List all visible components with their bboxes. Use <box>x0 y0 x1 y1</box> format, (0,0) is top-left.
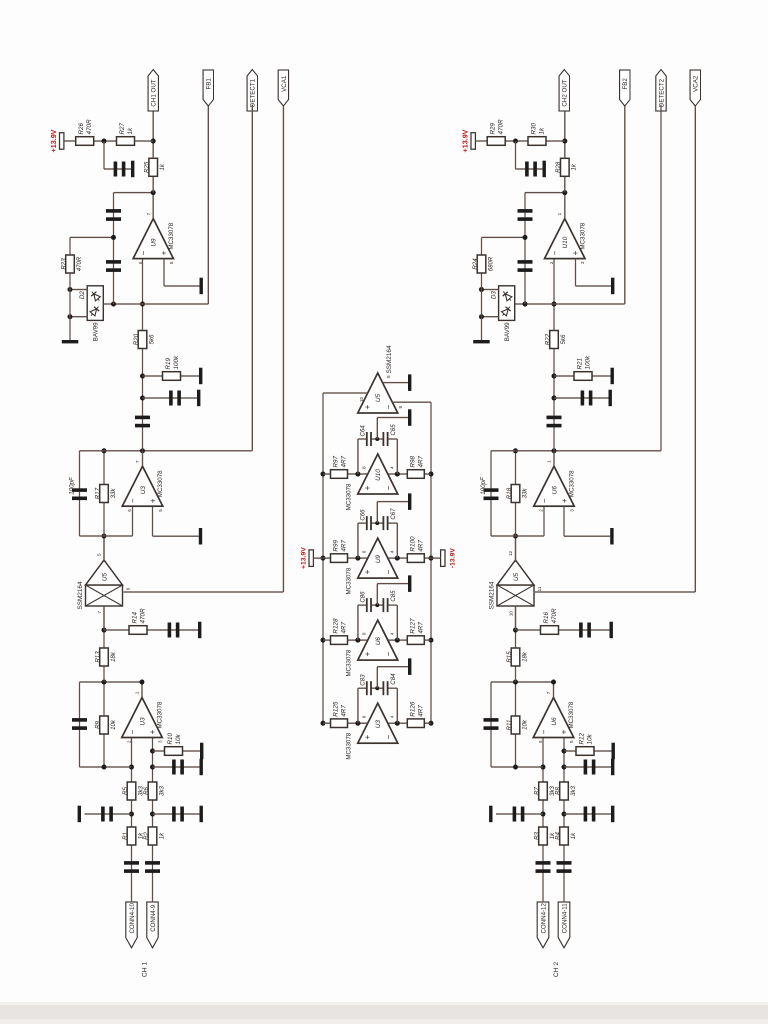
svg-text:3: 3 <box>580 261 585 264</box>
svg-text:U5: U5 <box>375 393 382 402</box>
svg-text:R125: R125 <box>333 701 340 717</box>
svg-text:R18: R18 <box>506 487 513 499</box>
svg-text:−: − <box>539 729 548 734</box>
svg-text:R3: R3 <box>533 831 540 839</box>
svg-text:1k: 1k <box>159 163 166 170</box>
svg-text:−: − <box>139 250 148 255</box>
svg-text:1k: 1k <box>570 832 577 839</box>
svg-text:C84: C84 <box>390 673 397 685</box>
svg-text:C67: C67 <box>390 508 397 520</box>
svg-text:4R7: 4R7 <box>417 540 424 552</box>
svg-text:U9: U9 <box>151 238 158 247</box>
svg-text:CONN4-9: CONN4-9 <box>150 904 157 932</box>
svg-text:MC33078: MC33078 <box>568 701 575 728</box>
svg-text:U5: U5 <box>101 572 108 581</box>
svg-text:470R: 470R <box>551 608 558 624</box>
svg-text:R127: R127 <box>409 618 416 634</box>
svg-text:+: + <box>363 735 372 740</box>
svg-text:+: + <box>560 729 569 734</box>
svg-text:R16: R16 <box>543 611 550 623</box>
svg-text:CH 1: CH 1 <box>142 962 149 978</box>
svg-text:R21: R21 <box>577 358 584 370</box>
svg-text:33k: 33k <box>110 488 117 499</box>
svg-text:BAV99: BAV99 <box>504 322 511 341</box>
svg-text:MC33078: MC33078 <box>346 732 353 759</box>
svg-text:R6: R6 <box>143 786 150 794</box>
svg-text:5k6: 5k6 <box>560 334 567 344</box>
svg-text:C65: C65 <box>390 424 397 436</box>
svg-text:MC33078: MC33078 <box>168 222 175 249</box>
svg-text:−: − <box>384 651 393 656</box>
svg-text:R10: R10 <box>167 732 174 744</box>
svg-text:CONN4-11: CONN4-11 <box>561 903 568 933</box>
svg-text:R12: R12 <box>579 732 586 744</box>
svg-text:+: + <box>571 250 580 255</box>
svg-text:SSM2164: SSM2164 <box>489 581 496 610</box>
svg-text:MC33078: MC33078 <box>346 567 353 594</box>
svg-text:R126: R126 <box>409 701 416 717</box>
svg-text:470R: 470R <box>86 119 93 135</box>
svg-text:10k: 10k <box>175 733 182 744</box>
svg-text:U10: U10 <box>562 236 569 248</box>
svg-text:4R7: 4R7 <box>341 455 348 467</box>
svg-text:+: + <box>148 729 157 734</box>
svg-text:CONN4-10: CONN4-10 <box>129 903 136 934</box>
svg-text:U3: U3 <box>375 720 382 729</box>
svg-text:4R7: 4R7 <box>341 705 348 717</box>
svg-text:R100: R100 <box>409 536 416 552</box>
svg-text:100pF: 100pF <box>69 476 76 495</box>
svg-text:CH2 OUT: CH2 OUT <box>562 79 569 106</box>
svg-text:3k3: 3k3 <box>570 785 577 795</box>
svg-text:R25: R25 <box>144 161 151 173</box>
svg-text:FB1: FB1 <box>206 78 213 90</box>
svg-text:CH1 OUT: CH1 OUT <box>151 79 158 106</box>
svg-text:-13.9V: -13.9V <box>449 548 456 568</box>
svg-text:1k: 1k <box>571 163 578 170</box>
svg-text:MC33078: MC33078 <box>580 222 587 249</box>
svg-text:4R7: 4R7 <box>341 622 348 634</box>
svg-text:100k: 100k <box>173 355 180 370</box>
svg-text:−: − <box>128 498 137 503</box>
svg-text:U3: U3 <box>140 486 147 495</box>
svg-text:R9: R9 <box>94 720 101 728</box>
svg-text:R5: R5 <box>122 786 129 794</box>
svg-text:4: 4 <box>390 466 395 469</box>
svg-text:9: 9 <box>398 406 403 409</box>
svg-text:R8: R8 <box>554 786 561 794</box>
svg-text:FB2: FB2 <box>622 78 629 90</box>
svg-text:R4: R4 <box>554 831 561 839</box>
svg-text:+: + <box>159 250 168 255</box>
svg-text:100pF: 100pF <box>480 476 487 495</box>
svg-text:−: − <box>540 498 549 503</box>
svg-text:12: 12 <box>508 550 513 556</box>
svg-text:R28: R28 <box>555 161 562 173</box>
svg-text:U3: U3 <box>139 717 146 726</box>
svg-text:6: 6 <box>127 509 132 512</box>
svg-text:10: 10 <box>509 611 514 617</box>
svg-text:+: + <box>363 404 372 409</box>
svg-text:CONN4-12: CONN4-12 <box>540 903 547 934</box>
svg-text:R14: R14 <box>132 611 139 623</box>
svg-text:8: 8 <box>362 466 367 469</box>
svg-text:R26: R26 <box>78 122 85 134</box>
svg-text:1k: 1k <box>539 127 546 135</box>
svg-text:10k: 10k <box>110 719 117 730</box>
svg-text:R7: R7 <box>533 786 540 794</box>
svg-text:7: 7 <box>97 611 102 614</box>
svg-text:+: + <box>363 569 372 574</box>
svg-text:4: 4 <box>390 715 395 718</box>
svg-text:MC33078: MC33078 <box>346 649 353 676</box>
svg-text:16: 16 <box>359 397 364 403</box>
svg-text:8: 8 <box>362 715 367 718</box>
svg-text:470R: 470R <box>140 608 147 624</box>
svg-text:8: 8 <box>362 550 367 553</box>
svg-text:MC33078: MC33078 <box>157 701 164 728</box>
svg-text:DETECT2: DETECT2 <box>658 78 665 107</box>
svg-text:2: 2 <box>549 261 554 264</box>
svg-text:−: − <box>551 250 560 255</box>
svg-text:R24: R24 <box>472 258 479 270</box>
svg-text:SSM2164: SSM2164 <box>77 581 84 610</box>
svg-text:6: 6 <box>125 587 130 590</box>
svg-text:+13.9V: +13.9V <box>49 129 58 152</box>
svg-text:5: 5 <box>97 553 102 556</box>
svg-text:33k: 33k <box>521 488 528 499</box>
svg-text:R20: R20 <box>133 333 140 345</box>
svg-text:U6: U6 <box>551 486 558 495</box>
svg-text:R27: R27 <box>119 122 126 134</box>
svg-text:−: − <box>384 569 393 574</box>
svg-text:R97: R97 <box>333 455 340 467</box>
svg-text:+: + <box>363 651 372 656</box>
svg-text:R99: R99 <box>333 540 340 552</box>
svg-text:4R7: 4R7 <box>417 705 424 717</box>
svg-text:C86: C86 <box>359 591 366 603</box>
svg-text:+: + <box>149 498 158 503</box>
svg-text:1: 1 <box>547 460 552 463</box>
svg-text:8: 8 <box>362 632 367 635</box>
svg-text:R23: R23 <box>60 258 67 270</box>
svg-text:R22: R22 <box>544 333 551 345</box>
svg-text:1k: 1k <box>127 127 134 135</box>
svg-text:4R7: 4R7 <box>417 622 424 634</box>
svg-text:R19: R19 <box>165 357 172 369</box>
svg-text:−: − <box>384 485 393 490</box>
svg-text:4: 4 <box>390 632 395 635</box>
svg-text:D2: D2 <box>79 291 86 300</box>
svg-text:R13: R13 <box>94 651 101 663</box>
svg-text:R2: R2 <box>143 831 150 839</box>
svg-text:4R7: 4R7 <box>341 540 348 552</box>
svg-text:3: 3 <box>570 509 575 512</box>
svg-text:R15: R15 <box>506 651 513 663</box>
svg-text:D3: D3 <box>491 291 498 300</box>
svg-text:CH 2: CH 2 <box>553 962 560 978</box>
svg-text:5: 5 <box>169 261 174 264</box>
svg-text:470R: 470R <box>76 256 83 271</box>
svg-text:6: 6 <box>538 740 543 743</box>
svg-text:DETECT1: DETECT1 <box>250 78 257 107</box>
svg-text:680R: 680R <box>487 256 494 271</box>
svg-text:11: 11 <box>537 586 542 591</box>
svg-text:4R7: 4R7 <box>417 455 424 467</box>
svg-text:6: 6 <box>138 261 143 264</box>
svg-text:U9: U9 <box>375 555 382 564</box>
svg-text:+13.9V: +13.9V <box>461 129 470 152</box>
svg-text:BAV99: BAV99 <box>93 322 100 341</box>
svg-text:R29: R29 <box>490 122 497 134</box>
svg-text:C85: C85 <box>390 590 397 602</box>
svg-text:−: − <box>384 404 393 409</box>
svg-text:3: 3 <box>158 740 163 743</box>
svg-text:MC33078: MC33078 <box>569 470 576 497</box>
svg-text:C83: C83 <box>359 674 366 686</box>
svg-text:C64: C64 <box>359 425 366 437</box>
svg-text:7: 7 <box>146 212 151 215</box>
svg-text:5: 5 <box>158 509 163 512</box>
svg-text:18k: 18k <box>521 651 528 662</box>
svg-text:10k: 10k <box>587 733 594 744</box>
svg-text:VCA1: VCA1 <box>281 75 288 92</box>
svg-text:U10: U10 <box>375 469 382 481</box>
svg-text:R128: R128 <box>333 618 340 634</box>
svg-text:2: 2 <box>539 509 544 512</box>
svg-text:18k: 18k <box>110 651 117 662</box>
svg-text:U6: U6 <box>551 717 558 726</box>
svg-text:7: 7 <box>135 460 140 463</box>
svg-text:1k: 1k <box>158 832 165 839</box>
svg-text:U6: U6 <box>375 637 382 646</box>
svg-text:+13.9V: +13.9V <box>301 547 308 569</box>
svg-text:R11: R11 <box>506 720 513 731</box>
svg-text:R98: R98 <box>409 455 416 467</box>
svg-text:100k: 100k <box>585 355 592 370</box>
svg-text:MC33078: MC33078 <box>346 483 353 510</box>
svg-text:2: 2 <box>127 740 132 743</box>
svg-text:1: 1 <box>557 212 562 215</box>
svg-text:−: − <box>128 729 137 734</box>
svg-text:+: + <box>560 498 569 503</box>
svg-text:−: − <box>384 735 393 740</box>
svg-text:3k3: 3k3 <box>158 785 165 795</box>
svg-text:470R: 470R <box>498 119 505 135</box>
svg-text:4: 4 <box>390 550 395 553</box>
svg-text:R1: R1 <box>122 832 129 840</box>
svg-text:U5: U5 <box>513 572 520 581</box>
svg-text:R30: R30 <box>531 122 538 134</box>
svg-text:8: 8 <box>386 375 391 378</box>
svg-text:C66: C66 <box>359 509 366 521</box>
svg-text:10k: 10k <box>521 719 528 730</box>
svg-text:SSM2164: SSM2164 <box>386 345 393 374</box>
svg-text:7: 7 <box>546 691 551 694</box>
svg-text:1: 1 <box>135 691 140 694</box>
svg-text:+: + <box>363 485 372 490</box>
svg-text:VCA2: VCA2 <box>693 75 700 92</box>
svg-text:5k6: 5k6 <box>148 334 155 344</box>
svg-text:R17: R17 <box>94 487 101 499</box>
svg-text:MC33078: MC33078 <box>157 470 164 497</box>
svg-text:5: 5 <box>569 740 574 743</box>
